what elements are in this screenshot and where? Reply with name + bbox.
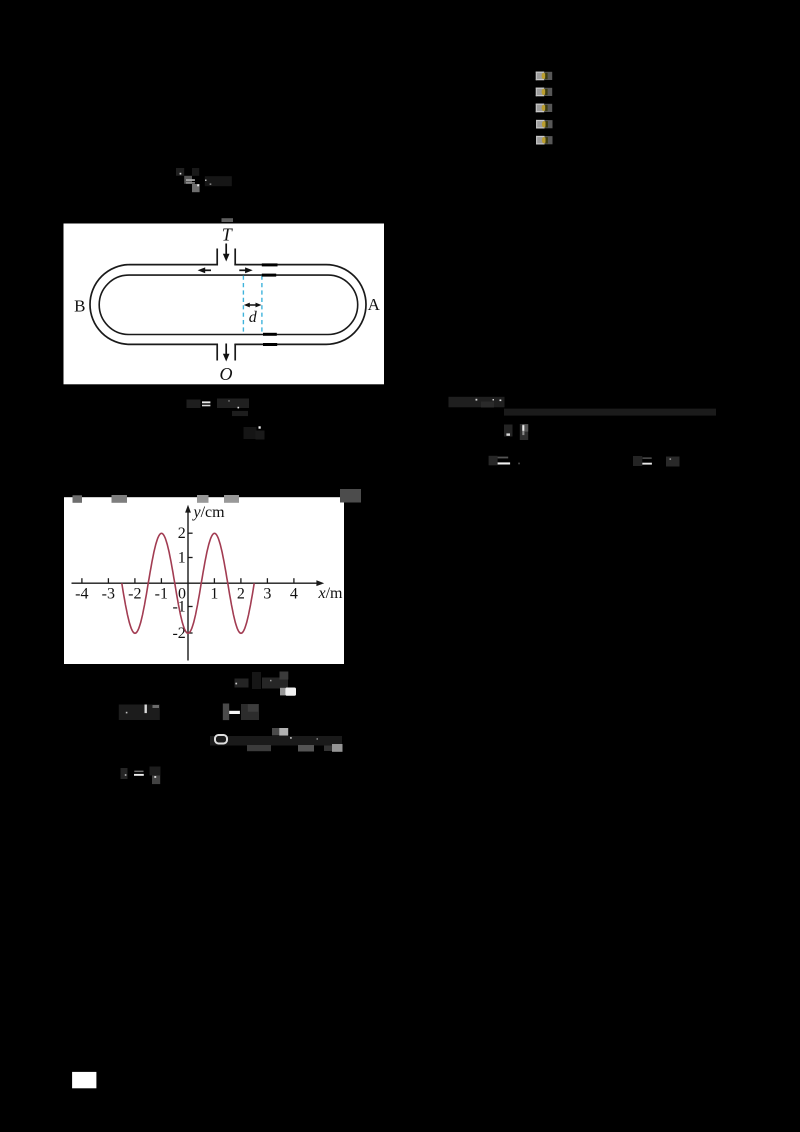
faint equation E1 bbox=[176, 168, 232, 192]
y axis bbox=[187, 511, 189, 661]
left arrow in channel bbox=[203, 269, 212, 271]
right column faint equations bbox=[449, 397, 717, 467]
page number white box bbox=[72, 1072, 96, 1088]
inlet tube walls bbox=[216, 249, 218, 266]
wave curve bbox=[122, 533, 254, 633]
cyan dashed line right bbox=[261, 276, 263, 333]
svg-text:2: 2 bbox=[178, 525, 186, 542]
right arrow in channel bbox=[239, 269, 248, 271]
long dark bar bbox=[504, 409, 716, 416]
svg-text:-3: -3 bbox=[102, 585, 115, 602]
svg-text:-1: -1 bbox=[155, 585, 168, 602]
svg-text:4: 4 bbox=[290, 585, 298, 602]
svg-text:1: 1 bbox=[178, 549, 186, 566]
x ticks bbox=[82, 578, 294, 583]
cyan dashed line left bbox=[242, 276, 244, 333]
1/2 fraction bits bbox=[504, 425, 513, 437]
svg-text:2: 2 bbox=[237, 585, 245, 602]
gaps in outer wall bbox=[218, 262, 234, 267]
row D bbox=[121, 768, 128, 779]
lambda row bbox=[449, 397, 505, 408]
outlet tube walls bbox=[216, 344, 218, 361]
svg-text:O: O bbox=[220, 364, 233, 384]
outlet down arrow bbox=[225, 344, 227, 357]
row A bbox=[235, 679, 249, 688]
gray dash above figure 1 bbox=[222, 218, 234, 222]
(2) specks bbox=[244, 427, 257, 439]
x axis bbox=[72, 582, 320, 584]
svg-text:3: 3 bbox=[263, 585, 271, 602]
bold wall segments bbox=[262, 263, 278, 266]
five gray option blocks top right bbox=[536, 72, 553, 145]
outer stadium bbox=[90, 265, 366, 345]
svg-text:y/cm: y/cm bbox=[192, 504, 226, 521]
equation rows under fig2 bbox=[119, 672, 343, 785]
FIGURE 1: racetrack tube bbox=[64, 224, 385, 385]
svg-text:1: 1 bbox=[210, 585, 218, 602]
svg-text:-4: -4 bbox=[75, 585, 88, 602]
svg-text:d: d bbox=[249, 309, 258, 326]
row B right bbox=[223, 704, 229, 721]
y ticks bbox=[188, 533, 193, 633]
y tick labels bbox=[172, 525, 185, 642]
T down arrow bbox=[225, 244, 227, 257]
t= row bbox=[633, 456, 642, 466]
row B left bbox=[119, 705, 160, 721]
row C bbox=[210, 736, 342, 746]
svg-text:A: A bbox=[368, 295, 381, 314]
FIGURE 2: wave graph bbox=[64, 497, 344, 664]
inner stadium bbox=[99, 275, 358, 334]
svg-text:B: B bbox=[74, 297, 85, 316]
d double arrow bbox=[247, 304, 259, 306]
svg-text:-2: -2 bbox=[128, 585, 141, 602]
svg-text:x/m: x/m bbox=[318, 585, 344, 602]
s= row bbox=[489, 456, 498, 466]
gray marks at fig2 top edge bbox=[73, 489, 362, 503]
equations row v= bbox=[187, 399, 265, 440]
x tick labels bbox=[75, 585, 298, 602]
